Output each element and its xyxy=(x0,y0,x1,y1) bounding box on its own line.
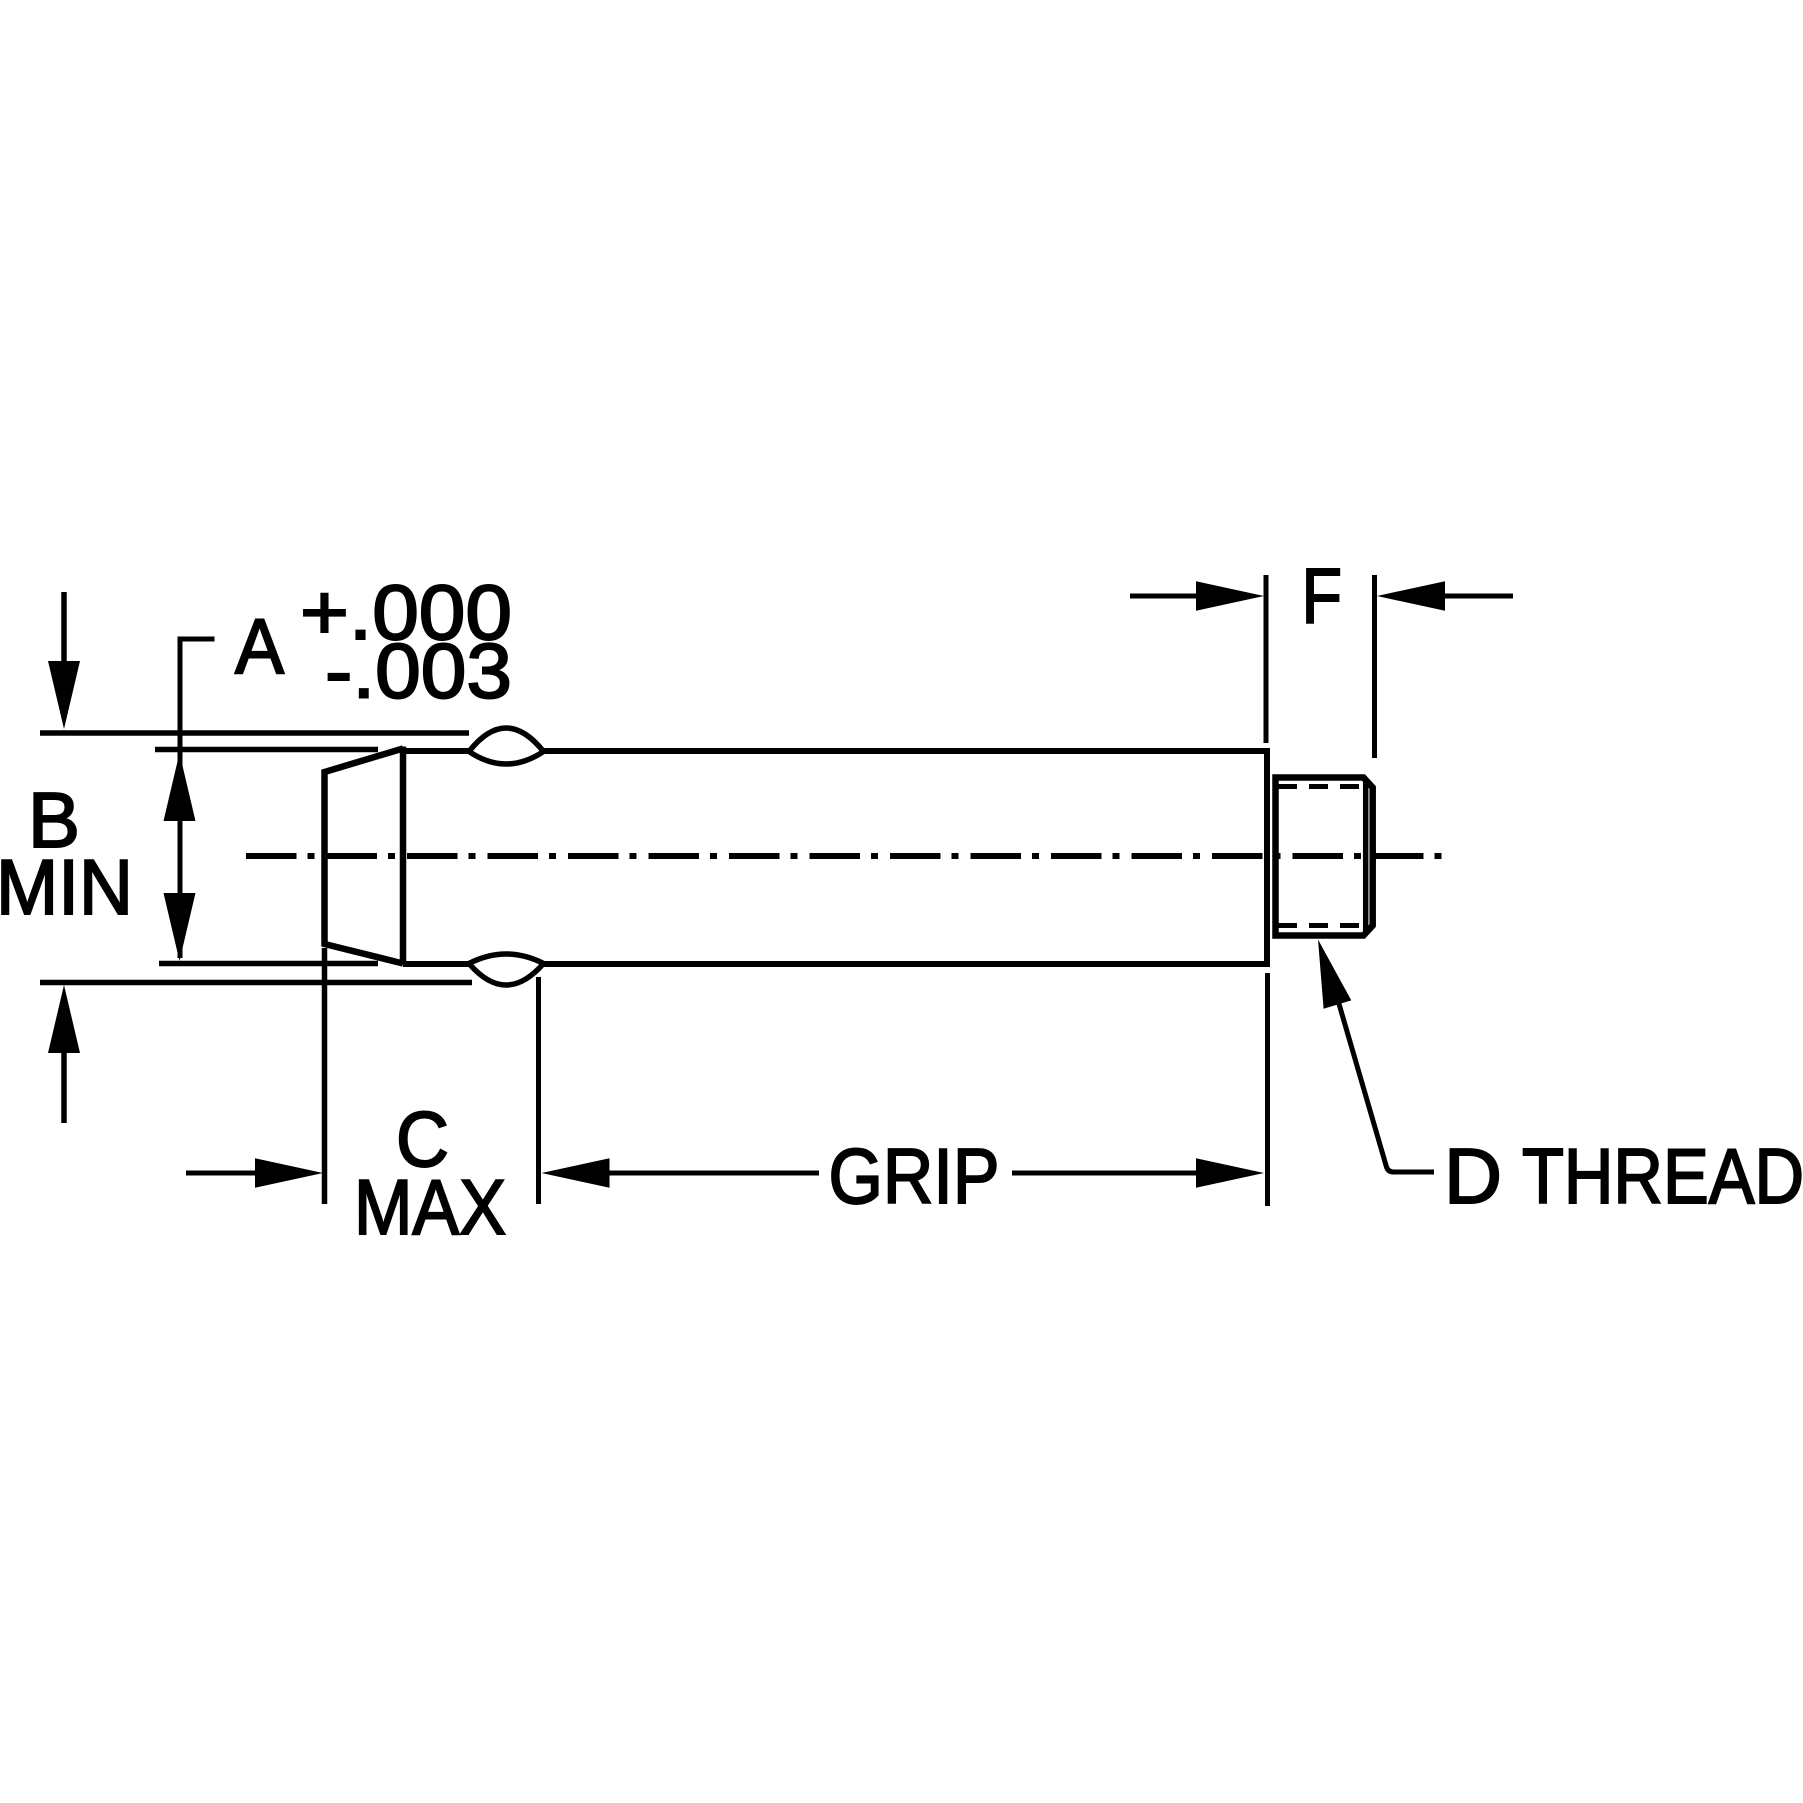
C right extension line xyxy=(536,977,541,1204)
A dimension down arrowhead xyxy=(48,661,80,729)
GRIP dimension line left segment xyxy=(606,1171,819,1176)
D THREAD leader line xyxy=(1330,973,1434,1172)
svg-text:THREAD: THREAD xyxy=(1522,1132,1803,1220)
svg-text:F: F xyxy=(1302,552,1343,640)
C left arrow shaft xyxy=(186,1171,258,1176)
thread minor diameter dashed line top xyxy=(1278,784,1369,789)
head trapezoid xyxy=(325,749,404,964)
D THREAD leader arrowhead xyxy=(1318,940,1351,1009)
bottom transition lobe xyxy=(469,954,544,985)
B top extension line xyxy=(155,747,378,753)
svg-text:A: A xyxy=(235,602,284,690)
top transition lobe xyxy=(469,728,544,764)
A dimension down arrow shaft xyxy=(61,592,67,665)
head right edge xyxy=(400,747,407,965)
C left arrowhead xyxy=(255,1158,323,1188)
B dimension up arrowhead xyxy=(164,753,196,821)
GRIP right extension line xyxy=(1265,973,1270,1206)
A callout bracket xyxy=(180,639,215,958)
body right edge xyxy=(1264,748,1270,967)
D thread outline xyxy=(1276,778,1373,936)
F right arrowhead xyxy=(1377,581,1445,611)
GRIP left arrowhead xyxy=(542,1158,610,1188)
F left extension line xyxy=(1264,575,1269,743)
centerline xyxy=(246,853,1452,859)
A dimension up arrowhead xyxy=(48,985,80,1053)
F left arrow shaft xyxy=(1130,594,1200,599)
A dimension up arrow shaft xyxy=(61,1050,67,1123)
svg-text:MAX: MAX xyxy=(354,1163,506,1251)
B dimension down arrowhead xyxy=(164,893,196,961)
F right arrow shaft xyxy=(1441,594,1513,599)
GRIP right arrowhead xyxy=(1196,1158,1264,1188)
C left extension line xyxy=(322,948,328,1204)
body bottom line xyxy=(403,961,1267,967)
body top line xyxy=(403,748,1267,754)
A top extension line xyxy=(40,730,469,736)
svg-text:MIN: MIN xyxy=(0,843,133,931)
thread chamfer inner line xyxy=(1363,781,1369,932)
GRIP dimension line right segment xyxy=(1012,1171,1200,1176)
svg-text:-.003: -.003 xyxy=(325,627,512,715)
A bottom extension line xyxy=(40,980,472,986)
F right extension line xyxy=(1372,575,1377,758)
F left arrowhead xyxy=(1196,581,1264,611)
thread minor diameter dashed line bottom xyxy=(1278,923,1369,928)
B bottom extension line xyxy=(159,961,378,967)
svg-text:GRIP: GRIP xyxy=(829,1132,1000,1220)
svg-text:D: D xyxy=(1444,1132,1502,1220)
